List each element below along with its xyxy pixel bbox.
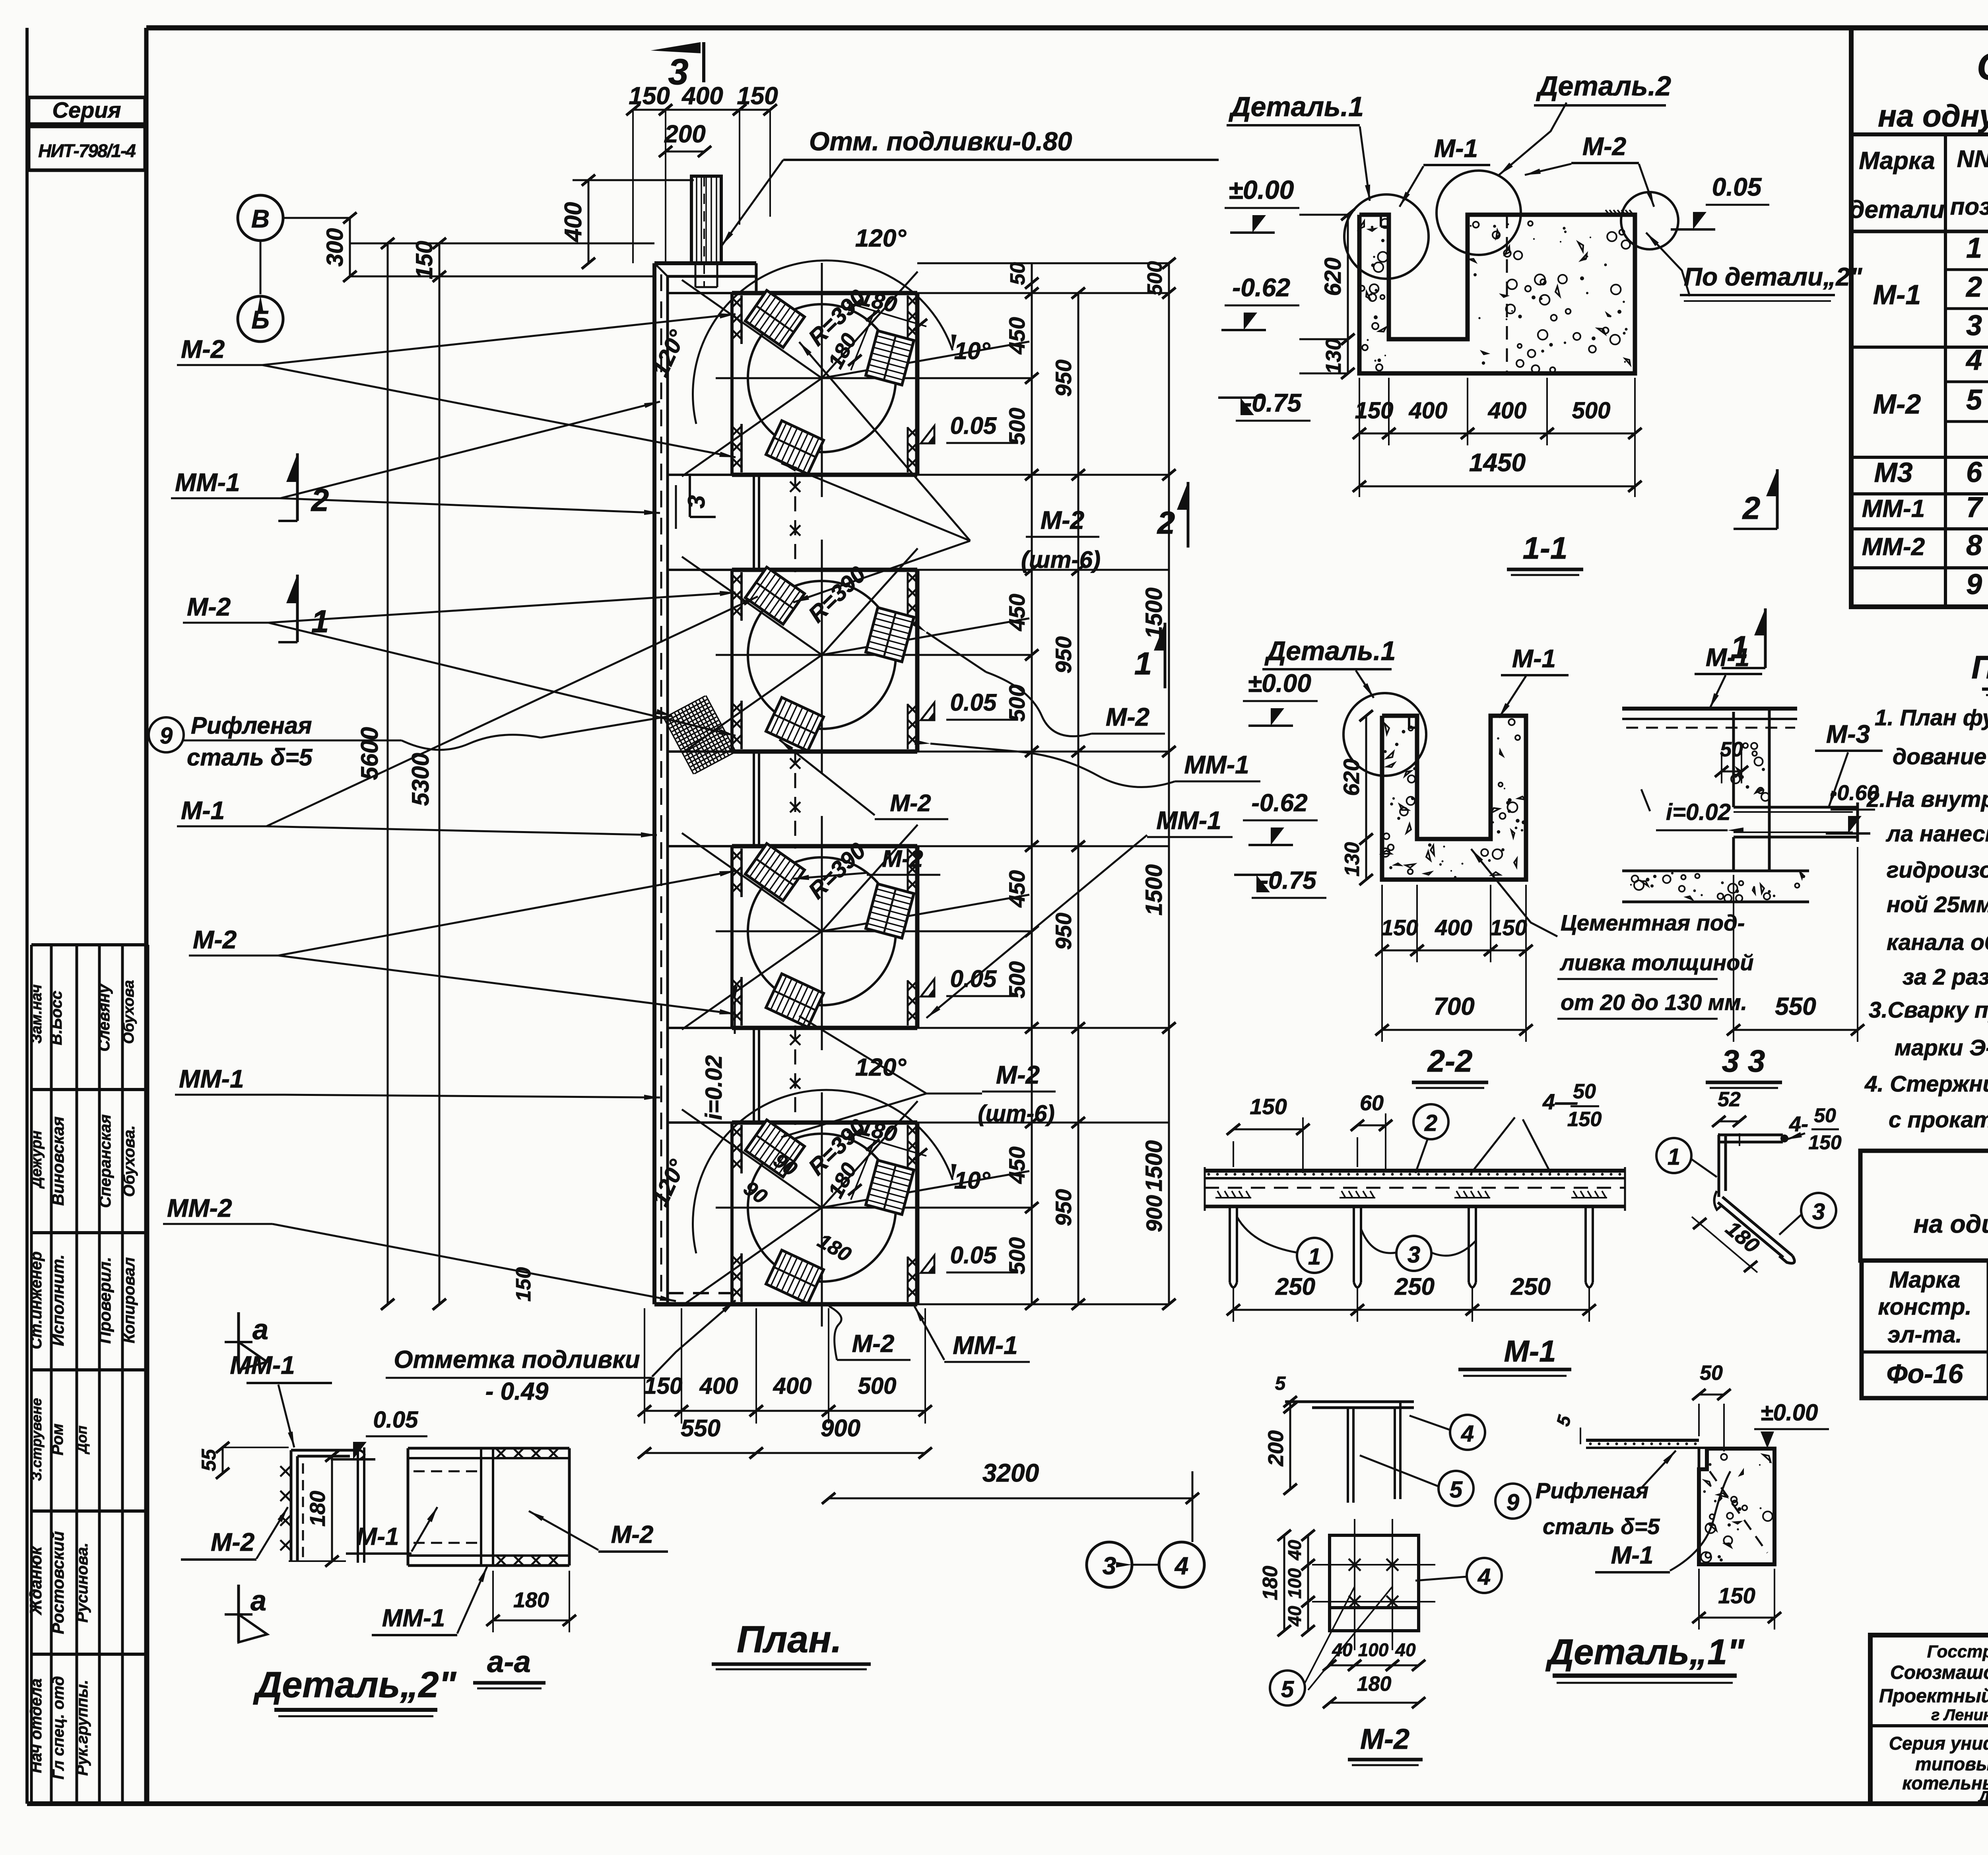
svg-text:ной 25мм. Наружные поверхно: ной 25мм. Наружные поверхности <box>1887 892 1988 917</box>
svg-text:400: 400 <box>773 1373 812 1399</box>
svg-text:3: 3 <box>683 495 710 508</box>
svg-text:-0.62: -0.62 <box>1251 789 1307 817</box>
svg-text:950: 950 <box>1051 1189 1076 1226</box>
svg-text:ММ-1: ММ-1 <box>179 1064 244 1093</box>
section 3-3 <box>1622 643 1883 1088</box>
svg-text:620: 620 <box>1320 258 1346 296</box>
svg-text:Отм. подливки-0.80: Отм. подливки-0.80 <box>809 126 1072 156</box>
svg-text:2: 2 <box>1424 1110 1437 1136</box>
svg-text:Проектный институт N1: Проектный институт N1 <box>1879 1686 1988 1707</box>
svg-text:450: 450 <box>1004 870 1029 907</box>
svg-text:950: 950 <box>1051 913 1076 950</box>
section 2-2 <box>1234 636 1754 1088</box>
svg-text:900: 900 <box>821 1415 860 1441</box>
svg-text:В: В <box>251 204 270 233</box>
svg-text:500: 500 <box>1004 1237 1029 1274</box>
svg-text:180: 180 <box>1259 1566 1282 1601</box>
svg-text:НИТ-798/1-4: НИТ-798/1-4 <box>38 140 136 161</box>
svg-text:М-2: М-2 <box>611 1521 654 1548</box>
svg-text:Рифленая: Рифленая <box>191 712 312 739</box>
svg-text:Марка: Марка <box>1859 147 1935 175</box>
svg-text:5600: 5600 <box>356 727 383 780</box>
svg-text:котельных с котлами: котельных с котлами <box>1902 1773 1988 1793</box>
svg-text:М-1: М-1 <box>1504 1334 1556 1368</box>
svg-text:4-: 4- <box>1789 1112 1808 1136</box>
svg-text:Д.К.В.Р: Д.К.В.Р <box>1977 1788 1988 1806</box>
svg-text:200: 200 <box>1264 1430 1288 1467</box>
svg-text:60: 60 <box>1360 1091 1384 1115</box>
svg-text:типовых проектов: типовых проектов <box>1915 1754 1988 1774</box>
svg-text:-0.60: -0.60 <box>1830 781 1879 805</box>
svg-text:Цементная под-: Цементная под- <box>1561 910 1745 935</box>
svg-text:Проверил.: Проверил. <box>95 1257 114 1344</box>
svg-text:180: 180 <box>1357 1672 1392 1696</box>
svg-text:за 2 раза.: за 2 раза. <box>1903 964 1988 990</box>
svg-text:М-2: М-2 <box>1360 1723 1409 1755</box>
svg-text:180: 180 <box>306 1491 330 1527</box>
svg-text:5: 5 <box>1966 384 1982 416</box>
svg-text:5300: 5300 <box>407 753 434 806</box>
svg-text:550: 550 <box>1775 993 1816 1020</box>
svg-text:дование см. лист КЖ-4.: дование см. лист КЖ-4. <box>1893 744 1988 769</box>
svg-text:(шт-6): (шт-6) <box>978 1101 1054 1127</box>
plan <box>647 176 1032 1327</box>
svg-text:М-2: М-2 <box>181 335 225 363</box>
svg-text:1500: 1500 <box>1141 864 1167 915</box>
svg-text:3: 3 <box>1966 310 1982 342</box>
svg-text:Виновская: Виновская <box>49 1117 67 1206</box>
svg-text:900: 900 <box>1142 1195 1167 1232</box>
svg-text:1: 1 <box>1308 1244 1321 1270</box>
svg-text:300: 300 <box>322 228 348 267</box>
svg-text:Русинова.: Русинова. <box>74 1542 91 1622</box>
svg-text:Зам.нач: Зам.нач <box>28 984 45 1043</box>
svg-text:детали: детали <box>1849 196 1945 223</box>
svg-text:450: 450 <box>1004 1146 1029 1184</box>
serial boxes <box>29 97 145 170</box>
svg-text:М-2: М-2 <box>882 845 923 872</box>
svg-text:М-2: М-2 <box>1582 132 1626 161</box>
svg-text:6: 6 <box>1966 456 1982 488</box>
svg-text:NN: NN <box>1957 146 1988 172</box>
svg-text:(шт-6): (шт-6) <box>1021 546 1101 573</box>
svg-text:5: 5 <box>1450 1477 1463 1503</box>
svg-text:400: 400 <box>1409 398 1448 423</box>
svg-text:400: 400 <box>560 202 586 242</box>
svg-text:i=0.02: i=0.02 <box>1666 799 1731 825</box>
svg-text:950: 950 <box>1051 359 1076 396</box>
svg-text:Копировал: Копировал <box>120 1257 138 1344</box>
svg-text:ММ-1: ММ-1 <box>1156 806 1221 835</box>
svg-text:9: 9 <box>1966 569 1982 600</box>
svg-text:Нач отдела: Нач отдела <box>27 1678 45 1773</box>
svg-text:поз.: поз. <box>1950 193 1988 220</box>
svg-text:550: 550 <box>681 1415 720 1441</box>
svg-text:Сперанская: Сперанская <box>97 1114 114 1208</box>
svg-text:50: 50 <box>1814 1104 1836 1127</box>
svg-text:9: 9 <box>160 723 173 749</box>
svg-text:а: а <box>252 1314 268 1346</box>
svg-text:-0.62: -0.62 <box>1232 273 1290 302</box>
svg-text:150: 150 <box>412 241 437 280</box>
svg-text:700: 700 <box>1433 993 1474 1020</box>
svg-text:Фо-16: Фо-16 <box>1887 1359 1964 1389</box>
svg-text:Рифленая: Рифленая <box>1536 1478 1648 1503</box>
svg-text:50: 50 <box>1700 1362 1723 1385</box>
svg-text:3 3: 3 3 <box>1722 1043 1765 1078</box>
svg-text:250: 250 <box>1275 1273 1315 1300</box>
signature strip <box>26 945 148 1804</box>
svg-text:0.05: 0.05 <box>950 1242 997 1268</box>
svg-text:Ростовский: Ростовский <box>49 1531 67 1634</box>
svg-text:500: 500 <box>1004 684 1029 721</box>
svg-text:М-1: М-1 <box>1873 279 1921 310</box>
plan dims <box>238 42 1219 1669</box>
svg-text:2: 2 <box>311 482 329 518</box>
svg-text:с прокатом, варить под сло: с прокатом, варить под слоем флюса <box>1889 1107 1988 1132</box>
svg-text:150: 150 <box>629 82 670 110</box>
svg-text:400: 400 <box>1435 915 1472 940</box>
svg-text:-0.75: -0.75 <box>1260 867 1317 894</box>
svg-text:М-2: М-2 <box>1873 388 1921 420</box>
svg-text:Жданюк: Жданюк <box>26 1546 45 1616</box>
svg-text:2: 2 <box>1965 271 1982 303</box>
svg-text:0.05: 0.05 <box>950 412 997 439</box>
svg-text:М-1: М-1 <box>1611 1542 1654 1569</box>
svg-text:М-2: М-2 <box>193 925 237 954</box>
svg-text:Деталь.1: Деталь.1 <box>1264 636 1396 666</box>
svg-text:500: 500 <box>1572 398 1611 423</box>
svg-text:9: 9 <box>1507 1490 1519 1515</box>
svg-text:Спецификация стали: Спецификация стали <box>1977 45 1988 88</box>
svg-text:620: 620 <box>1339 759 1364 796</box>
svg-text:М-2: М-2 <box>996 1061 1040 1089</box>
svg-text:Рук.группы.: Рук.группы. <box>74 1680 91 1775</box>
svg-text:Марка: Марка <box>1889 1267 1960 1293</box>
svg-text:500: 500 <box>858 1373 897 1399</box>
svg-text:Ром: Ром <box>49 1424 66 1455</box>
svg-text:М-1: М-1 <box>1434 134 1478 163</box>
svg-text:150: 150 <box>1490 915 1527 940</box>
svg-text:М-2: М-2 <box>187 592 231 621</box>
svg-text:1450: 1450 <box>1469 448 1526 477</box>
svg-text:250: 250 <box>1510 1273 1551 1300</box>
svg-text:40: 40 <box>1284 1540 1305 1561</box>
svg-text:Серия унифицированных: Серия унифицированных <box>1889 1733 1988 1754</box>
svg-text:М-1: М-1 <box>181 796 225 825</box>
svg-text:4: 4 <box>1477 1564 1491 1590</box>
svg-text:Госстрой С.С.С.Р.: Госстрой С.С.С.Р. <box>1927 1642 1988 1661</box>
svg-text:200: 200 <box>664 120 705 148</box>
M-1 detail <box>1205 1080 1625 1376</box>
svg-text:ла нанести штукатурную цемен: ла нанести штукатурную цементную <box>1885 821 1988 847</box>
svg-text:180: 180 <box>513 1588 549 1612</box>
svg-text:1-1: 1-1 <box>1523 530 1568 565</box>
svg-text:50: 50 <box>1720 738 1743 761</box>
svg-text:ММ-1: ММ-1 <box>1184 750 1249 779</box>
svg-text:а: а <box>250 1585 266 1617</box>
svg-text:50: 50 <box>1006 262 1029 285</box>
svg-text:М-2: М-2 <box>211 1528 254 1556</box>
svg-text:500: 500 <box>1143 261 1167 296</box>
svg-text:М-1: М-1 <box>1512 644 1556 673</box>
svg-text:на одну закладную или монта: на одну закладную или монтажную деталь. <box>1878 98 1988 133</box>
svg-text:Доп: Доп <box>74 1426 90 1455</box>
svg-text:Обухова.: Обухова. <box>120 1125 138 1197</box>
svg-text:250: 250 <box>1394 1273 1435 1300</box>
svg-text:130: 130 <box>1341 842 1364 877</box>
svg-text:100: 100 <box>1284 1568 1305 1599</box>
svg-text:М-1: М-1 <box>357 1523 399 1550</box>
svg-text:Серия: Серия <box>52 97 121 122</box>
svg-text:канала обмазать горячим бит: канала обмазать горячим битумом <box>1887 930 1988 955</box>
svg-text:3: 3 <box>1103 1552 1116 1580</box>
title block <box>1870 1635 1988 1852</box>
svg-text:2: 2 <box>1157 505 1175 540</box>
svg-text:5: 5 <box>1281 1676 1294 1702</box>
svg-text:Ст.инженер: Ст.инженер <box>27 1251 45 1349</box>
svg-text:ливка толщиной: ливка толщиной <box>1559 950 1754 975</box>
svg-text:сталь δ=5: сталь δ=5 <box>187 744 313 771</box>
svg-text:450: 450 <box>1004 594 1029 631</box>
svg-text:ММ-1: ММ-1 <box>953 1331 1018 1360</box>
svg-text:г Ленинград 1967г.: г Ленинград 1967г. <box>1931 1706 1988 1724</box>
svg-text:эл-та.: эл-та. <box>1887 1322 1962 1348</box>
svg-text:Деталь„1": Деталь„1" <box>1545 1632 1745 1672</box>
M-2 detail <box>1259 1519 1502 1765</box>
svg-text:ММ-1: ММ-1 <box>175 468 240 497</box>
svg-text:Обухова: Обухова <box>120 980 137 1044</box>
svg-text:Дежурн: Дежурн <box>28 1130 45 1189</box>
svg-text:2: 2 <box>1742 490 1761 526</box>
svg-text:- 0.49: - 0.49 <box>485 1378 549 1405</box>
svg-text:150: 150 <box>1567 1108 1602 1131</box>
svg-text:450: 450 <box>1004 317 1029 354</box>
svg-text:±0.00: ±0.00 <box>1248 669 1311 697</box>
svg-text:400: 400 <box>699 1373 738 1399</box>
svg-text:Исполнит.: Исполнит. <box>49 1255 67 1346</box>
svg-text:0.05: 0.05 <box>373 1407 419 1433</box>
svg-text:ММ-1: ММ-1 <box>1862 495 1925 523</box>
svg-text:100: 100 <box>1358 1639 1389 1660</box>
svg-text:Деталь.1: Деталь.1 <box>1229 91 1364 122</box>
svg-text:4: 4 <box>1174 1552 1188 1580</box>
svg-text:ММ-1: ММ-1 <box>382 1604 445 1632</box>
svg-text:Отметка подливки: Отметка подливки <box>394 1346 640 1373</box>
svg-text:1: 1 <box>311 604 329 639</box>
svg-text:ММ-2: ММ-2 <box>167 1194 232 1222</box>
svg-text:Гл спец. отд: Гл спец. отд <box>50 1676 67 1779</box>
svg-text:ММ-2: ММ-2 <box>1862 533 1925 561</box>
svg-text:План.: План. <box>737 1618 842 1661</box>
table 1 spec <box>1849 28 1988 607</box>
svg-text:М-1: М-1 <box>1706 643 1749 672</box>
svg-text:ММ-1: ММ-1 <box>230 1351 295 1379</box>
svg-text:В.Босс: В.Босс <box>48 991 65 1045</box>
plan labels <box>149 313 1260 1362</box>
svg-text:2.На внутренние поверхности: 2.На внутренние поверхности кана. <box>1866 787 1988 812</box>
svg-text:150: 150 <box>1381 915 1418 940</box>
svg-text:10°: 10° <box>954 338 991 364</box>
svg-text:3200: 3200 <box>982 1459 1039 1487</box>
svg-text:40: 40 <box>1395 1639 1416 1660</box>
weld detail 1-3 <box>1656 1088 1842 1272</box>
svg-text:М3: М3 <box>1874 457 1912 488</box>
svg-text:52: 52 <box>1718 1088 1741 1111</box>
notes <box>1826 649 1988 1132</box>
svg-text:1. План фундаментов под обо: 1. План фундаментов под обору- <box>1875 705 1988 730</box>
svg-text:4. Стержни, СОЕДИНЯЕМЫЕ ВТАВ: 4. Стержни, СОЕДИНЯЕМЫЕ ВТАВР <box>1864 1071 1988 1097</box>
svg-text:Союзмашстройпроект.: Союзмашстройпроект. <box>1890 1662 1988 1683</box>
svg-text:±0.00: ±0.00 <box>1761 1400 1818 1426</box>
svg-text:М-2: М-2 <box>1041 506 1084 534</box>
svg-text:500: 500 <box>1004 408 1029 445</box>
svg-text:150: 150 <box>1718 1583 1755 1608</box>
svg-text:1: 1 <box>1134 646 1152 681</box>
svg-text:120°: 120° <box>855 225 907 252</box>
svg-text:400: 400 <box>1488 398 1527 423</box>
section 1-1 <box>1218 70 1862 575</box>
svg-text:4: 4 <box>1965 344 1982 376</box>
svg-text:8: 8 <box>1966 530 1982 561</box>
svg-text:4: 4 <box>1461 1421 1474 1447</box>
svg-text:10°: 10° <box>954 1167 991 1194</box>
svg-text:марки Э-42. Высота шва h =: марки Э-42. Высота шва h = 6 нм <box>1895 1035 1988 1061</box>
svg-text:М-2: М-2 <box>852 1330 895 1358</box>
svg-text:0.05: 0.05 <box>1712 173 1762 201</box>
svg-text:1: 1 <box>1966 232 1982 264</box>
svg-text:3: 3 <box>668 52 688 92</box>
svg-text:40: 40 <box>1284 1606 1305 1627</box>
svg-text:По детали„2": По детали„2" <box>1684 262 1862 291</box>
detail 2 <box>181 1312 427 1642</box>
svg-text:на один конструктивный монол: на один конструктивный монолитный элемен… <box>1914 1210 1988 1238</box>
svg-text:0.05: 0.05 <box>950 689 997 716</box>
svg-text:500: 500 <box>1004 961 1029 998</box>
svg-text:5: 5 <box>1275 1373 1286 1394</box>
svg-text:М-2: М-2 <box>890 790 931 816</box>
svg-text:М-2: М-2 <box>1106 703 1149 731</box>
svg-text:7: 7 <box>1966 491 1983 523</box>
svg-text:150: 150 <box>1355 398 1394 423</box>
svg-text:от 20 до 130 мм.: от 20 до 130 мм. <box>1561 990 1747 1015</box>
svg-text:З.струвене: З.струвене <box>28 1398 45 1481</box>
svg-text:а-а: а-а <box>487 1645 531 1679</box>
svg-text:3: 3 <box>1408 1242 1420 1268</box>
svg-text:констр.: констр. <box>1878 1294 1971 1320</box>
T detail <box>1264 1373 1485 1506</box>
svg-text:гидроизоляцию состава 1:2, то: гидроизоляцию состава 1:2, толщи. <box>1887 857 1988 883</box>
svg-text:3.Сварку производить электро: 3.Сварку производить электродами <box>1869 997 1988 1023</box>
svg-text:150: 150 <box>737 82 778 110</box>
section a-a <box>253 1448 668 1716</box>
svg-text:50: 50 <box>1573 1080 1596 1103</box>
svg-text:3: 3 <box>1812 1199 1825 1225</box>
svg-text:2-2: 2-2 <box>1427 1043 1473 1078</box>
svg-text:1: 1 <box>1668 1144 1680 1170</box>
svg-text:150: 150 <box>1250 1094 1287 1119</box>
svg-text:сталь δ=5: сталь δ=5 <box>1543 1514 1660 1539</box>
detail 1 <box>1495 1362 1829 1683</box>
svg-text:Деталь„2": Деталь„2" <box>253 1665 457 1705</box>
svg-text:±0.00: ±0.00 <box>1229 175 1294 204</box>
svg-text:55: 55 <box>198 1449 220 1471</box>
svg-text:Примечания.: Примечания. <box>1971 649 1988 686</box>
svg-text:130: 130 <box>1322 338 1345 374</box>
svg-text:i=0.02: i=0.02 <box>701 1055 727 1120</box>
svg-text:150: 150 <box>1808 1131 1842 1154</box>
table 3 <box>1860 1151 1988 1398</box>
svg-text:Слевяну: Слевяну <box>95 984 113 1052</box>
svg-text:М-3: М-3 <box>1826 720 1870 748</box>
svg-text:1500: 1500 <box>1141 1140 1167 1191</box>
svg-text:Деталь.2: Деталь.2 <box>1536 70 1671 101</box>
svg-text:950: 950 <box>1051 636 1076 673</box>
